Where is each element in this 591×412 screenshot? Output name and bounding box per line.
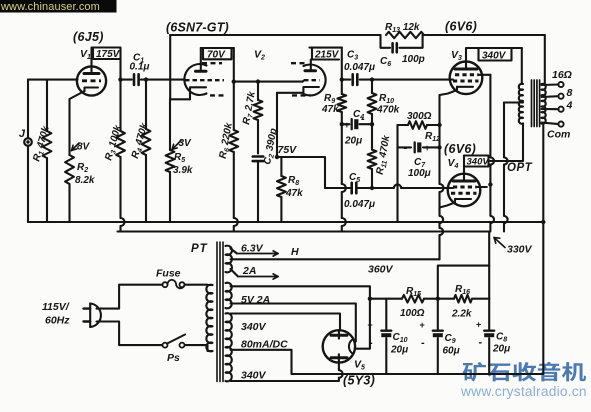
watermark www.chinauser.com	[0, 0, 117, 13]
svg-text:-: -	[361, 113, 365, 125]
tube V2b 6SN7 triode 2	[304, 65, 326, 96]
resistor R15 100ohm	[402, 295, 424, 303]
wire cathode rail right	[438, 95, 440, 125]
wire V5 filament right	[355, 299, 370, 349]
resistor R9 47k	[341, 80, 343, 94]
svg-text:(6SN7-GT): (6SN7-GT)	[166, 21, 229, 35]
OPT center tap B+	[504, 101, 523, 103]
svg-text:47k: 47k	[285, 188, 303, 199]
svg-text:47k: 47k	[321, 104, 339, 115]
wire 215V to C3 node	[341, 48, 343, 80]
svg-text:340V: 340V	[467, 157, 490, 168]
capacitor C2 390p	[253, 155, 264, 158]
svg-text:+: +	[420, 320, 425, 330]
heater wire H	[231, 258, 440, 260]
svg-text:-: -	[479, 337, 483, 349]
svg-text:340V: 340V	[241, 370, 267, 382]
svg-text:8.2k: 8.2k	[75, 175, 95, 186]
capacitor C4 20u	[340, 122, 344, 126]
resistor R12 300ohm	[398, 124, 409, 126]
wire 330V riser	[438, 266, 489, 299]
wire feedback from 16ohm tap	[544, 35, 546, 84]
svg-text:330V: 330V	[507, 244, 533, 256]
svg-text:+: +	[368, 320, 373, 330]
PT primary winding	[206, 285, 212, 352]
filter row 360V	[368, 297, 372, 301]
svg-text:16Ω: 16Ω	[552, 69, 572, 81]
tube V3 6V6	[450, 62, 483, 95]
tube V1 6J5	[77, 66, 106, 95]
svg-text:0.047μ: 0.047μ	[344, 62, 375, 73]
wire V4 plate to OPT	[489, 160, 524, 162]
resistor R4 470k	[144, 77, 148, 81]
capacitor C1 0.1u	[121, 79, 132, 81]
svg-text:80mA/DC: 80mA/DC	[241, 339, 288, 351]
wire 5V top 360V	[231, 286, 370, 298]
B+ 330V bus	[118, 230, 490, 232]
svg-text:2A: 2A	[242, 265, 256, 277]
resistor R3 100k	[119, 80, 121, 131]
wire V5 bottom plate to HV	[338, 358, 340, 363]
wire 5V bottom	[231, 304, 356, 342]
voltage box 215V	[310, 47, 342, 49]
capacitor C7 100u	[398, 146, 412, 148]
ground bus	[28, 221, 544, 223]
wire switch to PT	[185, 345, 213, 351]
svg-text:100Ω: 100Ω	[400, 308, 425, 319]
wire V2a cathode	[170, 99, 190, 148]
capacitor C6 100p	[381, 35, 391, 48]
svg-text:115V/: 115V/	[42, 301, 70, 313]
resistor R5 3.9k	[169, 149, 171, 151]
OPT secondary winding	[542, 84, 546, 124]
resistor R10 470k	[371, 80, 373, 93]
wire input vertical	[27, 80, 29, 139]
wire 75V to C5	[277, 157, 325, 188]
svg-text:0.1μ: 0.1μ	[130, 62, 150, 73]
svg-text:(6J5): (6J5)	[73, 30, 104, 44]
resistor R7 2.7k	[256, 79, 260, 83]
svg-text:+: +	[425, 143, 430, 153]
svg-text:PT: PT	[191, 243, 208, 255]
svg-text:2.2k: 2.2k	[451, 309, 472, 320]
wire V2a plate to V2b grid	[233, 48, 235, 82]
svg-text:(6V6): (6V6)	[444, 142, 476, 156]
wire V3 plate	[466, 48, 522, 62]
resistor R6 220k	[233, 82, 235, 130]
svg-text:(5Y3): (5Y3)	[343, 374, 375, 388]
capacitor C10 20u	[385, 299, 387, 329]
svg-text:340V: 340V	[241, 321, 267, 333]
wire V2b cathode down 75V	[276, 93, 278, 157]
6.3V tap arrow	[231, 249, 238, 254]
svg-text:www.chinauser.com: www.chinauser.com	[0, 1, 100, 13]
wire R9 line to B+ bus	[341, 124, 343, 184]
svg-text:360V: 360V	[368, 264, 394, 276]
svg-text:215V: 215V	[314, 50, 340, 61]
wire V3 plate down to OPT	[521, 48, 523, 84]
wire V3 screen	[479, 74, 491, 76]
resistor R13 12k	[386, 32, 424, 38]
svg-text:70V: 70V	[207, 50, 226, 61]
svg-text:100p: 100p	[402, 54, 425, 65]
wire HV center tap 80mA	[231, 350, 544, 374]
watermark kuangshi shouyinji	[463, 362, 586, 381]
voltage box 70V	[201, 47, 234, 49]
wire feedback rail	[170, 34, 380, 36]
wire mains top	[97, 285, 163, 309]
svg-text:4: 4	[566, 100, 573, 112]
svg-text:R13 12k: R13 12k	[385, 22, 420, 34]
svg-text:+: +	[476, 320, 481, 330]
wire V4 screen	[477, 186, 487, 188]
svg-text:-: -	[421, 337, 425, 349]
svg-text:+: +	[344, 120, 349, 130]
resistor R11 470k	[371, 124, 373, 149]
capacitor C8 20u	[488, 299, 490, 329]
wire HV bottom 340V	[231, 380, 337, 382]
svg-text:Com: Com	[547, 129, 570, 141]
svg-text:100μ: 100μ	[408, 168, 431, 179]
svg-text:20μ: 20μ	[390, 345, 408, 356]
svg-text:OPT: OPT	[507, 162, 533, 174]
svg-text:175V: 175V	[96, 49, 121, 60]
wire V4 plate / voltage box 340V lower	[463, 167, 465, 174]
svg-text:(6V6): (6V6)	[445, 20, 477, 34]
OPT primary winding	[519, 84, 523, 124]
svg-text:20μ: 20μ	[492, 344, 510, 355]
resistor R2 8.2k	[68, 152, 70, 156]
PT core	[216, 242, 218, 382]
wire V1 cathode	[70, 91, 85, 152]
svg-text:3.9k: 3.9k	[173, 165, 193, 176]
svg-text:8: 8	[567, 87, 573, 99]
tube V2a 6SN7 triode 1	[184, 64, 206, 95]
node V1 plate / C1	[118, 77, 122, 81]
wire HV top 340V	[231, 314, 341, 331]
tube V4 6V6	[448, 174, 481, 207]
svg-text:470k: 470k	[376, 105, 400, 116]
PT 5V winding	[226, 283, 232, 309]
capacitor C9 60u	[437, 299, 439, 329]
PT HV winding	[226, 313, 232, 381]
wire grid V1	[28, 79, 78, 81]
wire fuse to PT	[185, 284, 213, 286]
svg-text:www.crystalradio.cn: www.crystalradio.cn	[460, 384, 587, 399]
OPT secondary taps	[542, 83, 559, 86]
svg-text:Ps: Ps	[167, 352, 180, 364]
voltage box 175V	[93, 48, 121, 60]
wire V4 grid	[372, 187, 394, 189]
voltage box 340V upper	[479, 48, 512, 61]
svg-text:-: -	[369, 337, 373, 349]
switch Ps	[163, 343, 168, 348]
capacitor C5 0.047u	[325, 187, 350, 189]
OPT core	[531, 80, 533, 127]
wire V1 plate	[92, 48, 121, 80]
svg-text:-: -	[404, 142, 408, 154]
svg-text:20μ: 20μ	[344, 136, 362, 147]
svg-text:H: H	[291, 246, 299, 258]
svg-text:60Hz: 60Hz	[45, 315, 70, 327]
wire V3 grid	[370, 77, 374, 81]
svg-text:3V: 3V	[179, 138, 193, 149]
tube V5 5Y3	[323, 330, 355, 362]
resistor R1 470k	[46, 80, 48, 131]
resistor R8 47k	[277, 156, 281, 158]
wire OPT common down	[542, 124, 544, 375]
resistor R16 2.2k	[436, 297, 440, 301]
wire R12 C7 left to ground	[396, 125, 398, 219]
svg-text:6.3V: 6.3V	[241, 243, 264, 255]
input jack J	[24, 138, 32, 146]
svg-text:340V: 340V	[482, 51, 507, 62]
svg-text:75V: 75V	[278, 144, 298, 156]
2A tap arrow	[231, 269, 239, 277]
svg-text:60μ: 60μ	[443, 346, 460, 357]
svg-text:Fuse: Fuse	[156, 268, 181, 280]
capacitor C3 0.047u	[342, 79, 350, 81]
svg-text:J: J	[19, 128, 26, 140]
wire mains bottom	[97, 322, 163, 346]
svg-text:300Ω: 300Ω	[407, 111, 432, 122]
PT 6.3V winding	[226, 246, 232, 273]
svg-text:0.047μ: 0.047μ	[344, 199, 375, 210]
